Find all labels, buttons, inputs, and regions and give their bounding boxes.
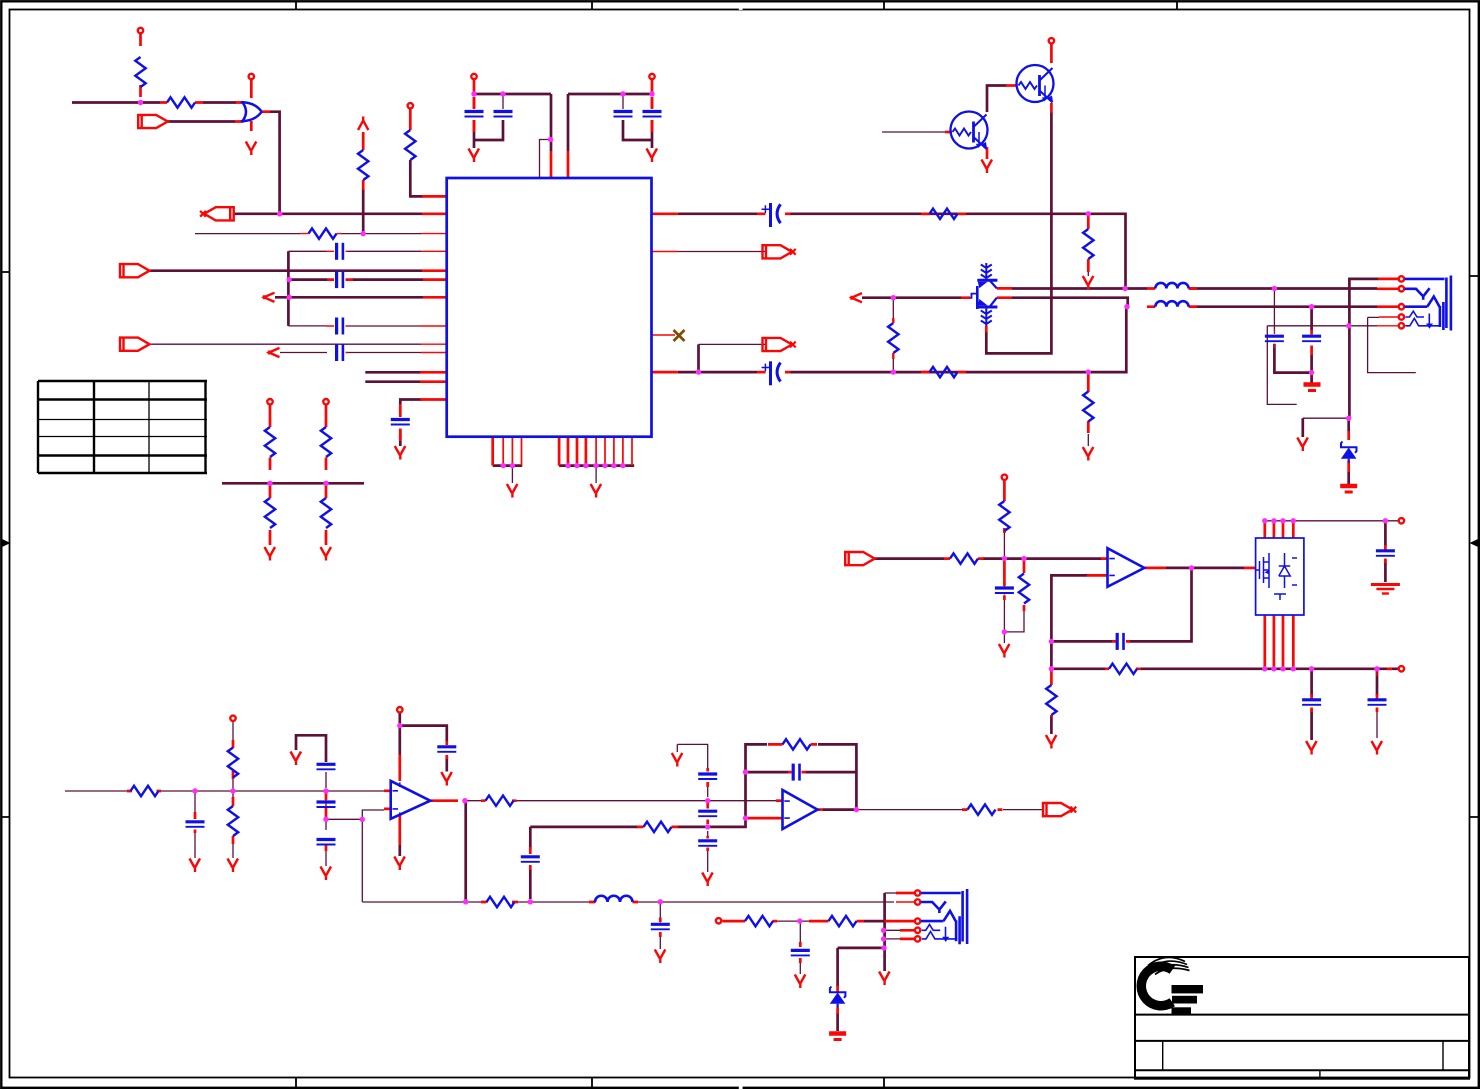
resistor R8: [321, 498, 331, 528]
wire R9 column corner: [410, 160, 423, 196]
node gnd branch junction: [1346, 416, 1351, 421]
wire decapA rail: [474, 94, 551, 151]
pin stub jack2 p1: [896, 892, 914, 895]
pin stub jack1 p3: [1377, 305, 1398, 308]
ground gate: [246, 142, 256, 156]
pin stub R x1051 gnd: [1050, 666, 1053, 717]
capacitor C20: [437, 747, 456, 752]
resistor R30: [228, 748, 238, 778]
pin stub cap x530: [529, 847, 532, 870]
resistor R39: [644, 822, 672, 832]
pin stub cap x195: [194, 812, 197, 833]
power pin decapB: [649, 74, 654, 79]
inductor L2: [1155, 301, 1188, 307]
resistor R24: [1109, 664, 1137, 674]
resistor R4: [358, 150, 368, 180]
pin stub R5 R6 cols: [270, 405, 326, 470]
wire gate output to junction column: [269, 112, 280, 214]
node decapB a junction: [620, 91, 625, 96]
pin stub IC left cap y399: [400, 400, 446, 442]
pin stub fb R y744: [768, 743, 817, 746]
node botbus2 e junction: [602, 463, 607, 468]
resistor R35: [783, 739, 811, 749]
wire net y297.3: [275, 296, 423, 299]
port P3 out: [120, 338, 150, 351]
wire opamp2 output segment: [823, 808, 857, 811]
title block: [1135, 957, 1469, 1079]
node botbus2 f junction: [611, 463, 616, 468]
wire IC left pin y381.7: [365, 380, 420, 383]
wire R x1088 gnd leg: [1087, 214, 1089, 446]
pin stub R x1088.3 y372: [1087, 374, 1090, 433]
node L2 in junction: [1124, 304, 1129, 309]
pin stub cap x1004 plates: [1003, 586, 1005, 596]
capacitor C17: [317, 764, 336, 769]
node hp in a junction: [1002, 556, 1007, 561]
pin stub L3 leads: [589, 901, 638, 904]
node y214 R13 junction: [1086, 211, 1091, 216]
node chain low junction: [705, 824, 710, 829]
pin stub R2 leads: [160, 101, 203, 104]
pin stub IC bottom pins g1: [491, 437, 494, 466]
node y902 a junction: [463, 899, 468, 904]
left border centre arrow: [2, 539, 11, 547]
resistor R5: [265, 427, 275, 457]
power pin y668.8 rail: [1399, 666, 1404, 671]
inductor L1: [1155, 283, 1188, 289]
ground caps y700 b: [1372, 741, 1383, 755]
pin stub gate inputs: [235, 103, 244, 122]
pin stub jack1 p2: [1377, 287, 1398, 290]
pin stub gate output: [262, 110, 271, 113]
capacitor C15: [995, 588, 1014, 593]
capacitor C1: [337, 243, 343, 260]
wire jack1 pin5 line: [1267, 326, 1377, 405]
capacitor C11: [1302, 336, 1321, 341]
node U4 rail a junction: [1262, 518, 1267, 523]
pin stub decap caps: [474, 97, 652, 132]
pin stub jack1 p4 p5 thin: [1377, 317, 1398, 326]
wire headphone amp input: [874, 557, 1101, 560]
wire cap chain x707.7: [677, 744, 707, 872]
pin stub caps y700: [1312, 694, 1377, 712]
ground jack1 branch: [1297, 438, 1308, 452]
pin stub thin y344.2: [421, 343, 446, 345]
wire jack2 pin1 down-leg: [883, 893, 886, 946]
pin stub hp input R: [944, 557, 984, 560]
ground opamp1 supply cap: [441, 772, 452, 786]
pin stub Q1 base: [945, 131, 952, 134]
power pin R x233: [230, 716, 235, 721]
resistor R12: [888, 323, 898, 353]
wire IC left pin y372.3: [365, 371, 420, 374]
ground cap x800: [795, 975, 806, 989]
pin stub R x1004 col: [1003, 481, 1006, 601]
ground IC bottom g1: [507, 484, 518, 498]
pin stub R39 leads: [637, 826, 678, 829]
wire IC top jog pin: [540, 140, 552, 179]
resistor R7: [265, 498, 275, 528]
node botbus1 b junction: [510, 463, 515, 468]
ground caps y700 a: [1306, 741, 1317, 755]
pin stub fb cap y772: [788, 771, 806, 774]
resistor R37: [745, 916, 773, 926]
wire opamp1 supply: [400, 713, 447, 772]
node botbus2 b junction: [574, 463, 579, 468]
revision table: [38, 381, 207, 473]
wire vertical bus x289: [287, 251, 290, 326]
pin stub cap x800 col: [799, 942, 802, 963]
right border zone ticks: [1470, 276, 1478, 817]
capacitor C12: [1376, 551, 1395, 556]
power pin jack1 p5: [1399, 323, 1404, 328]
pin stub cap C2 leads: [328, 278, 353, 281]
pin stub IC pins y372 y381: [420, 372, 446, 381]
wire interstage y800.7: [466, 800, 776, 802]
wire L2 to jack1 pin3: [1189, 305, 1378, 308]
resistor R31: [228, 806, 238, 836]
node out bus a junction: [1262, 666, 1267, 671]
wire U4 top rail to power pin: [1265, 520, 1399, 522]
wire opamp3 R-gnd leg: [1050, 715, 1053, 734]
node top jog junction: [548, 137, 553, 142]
node opamp2 out junction: [854, 807, 859, 812]
wire opamp2 out to port: [856, 809, 1043, 811]
power pin jack2 p4: [915, 928, 920, 933]
wire opamp3 output to U4: [1166, 567, 1245, 570]
ground bar zener D1: [1340, 486, 1357, 492]
pin stub R y668.8 to jack rail: [1387, 667, 1392, 670]
node muteB junction: [696, 369, 701, 374]
pin stub opamp3 output: [1144, 567, 1166, 570]
wire net SCLK: port P2 to IC pin: [234, 212, 422, 215]
capacitor C5: [465, 112, 484, 117]
pin stub lineout R2 and pin3: [809, 920, 914, 923]
power pin jack2 p5: [915, 936, 920, 941]
node botbus2 d junction: [593, 463, 598, 468]
wire opamp1 vee: [398, 845, 401, 856]
pin stub jack2 p2: [896, 901, 914, 903]
wire L1 to jack1 pin2: [1189, 287, 1378, 290]
pin stub jack2 p4 p5: [900, 930, 914, 939]
wire net HP-R drive y297.7: [862, 298, 1128, 307]
node botbus1 a junction: [501, 463, 506, 468]
wire port P1 to gate input B: [167, 120, 235, 123]
pin stub cap x1312: [1310, 330, 1313, 355]
capacitor C2: [337, 271, 343, 288]
pin stub cap x1377 col: [1376, 669, 1378, 676]
wire stage2 cap leg x530: [529, 827, 532, 899]
capacitor C14: [1368, 700, 1387, 705]
logic gate U1: [241, 102, 262, 121]
left border zone ticks: [2, 272, 10, 817]
pin stub FET drains: [961, 288, 1012, 297]
resistor R2: [167, 97, 195, 107]
node out bus e junction: [1309, 666, 1314, 671]
wire net AOUTB y372.1: [678, 308, 1127, 373]
ground IC cap y446: [395, 446, 406, 460]
wire R divider x1024 leg: [1004, 559, 1024, 632]
wire fb cap right segment: [806, 771, 856, 774]
wire line-out R to jack2 pin3: [864, 920, 885, 923]
capacitor C22: [698, 811, 717, 816]
wire cap leg x660: [659, 902, 661, 949]
port P8 line out (x-tip): [1043, 803, 1073, 816]
wire net y326 cap line: [288, 325, 420, 327]
wire IC bottom gnd stems: [512, 466, 596, 483]
ground bar zener D2: [829, 1034, 846, 1040]
node decapA a junction: [471, 91, 476, 96]
ground flying cap bottom: [321, 867, 332, 881]
pin stub R12 x893 leads: [892, 318, 894, 359]
wire net y251.3 cap line: [288, 250, 421, 252]
diode D2 zener: [830, 987, 846, 998]
node y902 b junction: [528, 899, 533, 904]
pin stub IC pin y270.7: [422, 269, 446, 272]
wire net P3 y344.2: [150, 343, 422, 345]
transistor Q2: [1017, 65, 1054, 102]
resistor R14: [1083, 392, 1093, 422]
capacitor C6: [494, 112, 513, 117]
node y372 R14 junction: [1086, 369, 1091, 374]
power pin R x1004: [1002, 475, 1007, 480]
pin stub Q2 emitter: [1050, 103, 1053, 113]
node decapB b junction: [649, 91, 654, 96]
pin stub opamp1 output: [430, 799, 458, 802]
node stageA a junction: [192, 788, 197, 793]
resistor R20: [999, 501, 1009, 531]
node gate out junction: [277, 211, 282, 216]
resistor R33: [486, 796, 514, 806]
wire net AOUTA y213.8: [678, 214, 1126, 289]
wire R column x893: [892, 298, 894, 322]
pin stub R x1088 gnd: [1087, 216, 1090, 272]
pin stub cap CP1 leads: [757, 212, 791, 215]
node botbus2 a junction: [565, 463, 570, 468]
capacitor C23: [698, 841, 717, 846]
wire net y352.5 cap line: [280, 352, 421, 354]
inductor L3: [595, 896, 633, 902]
node y902 c junction: [658, 899, 663, 904]
pin stub jack1 p1: [1378, 278, 1398, 281]
wire net y279.6 right: [352, 278, 423, 281]
wire Q1 base lead: [882, 131, 945, 133]
power pin Q2: [1049, 38, 1054, 43]
wire stage-A long bottom y902: [362, 901, 894, 903]
pin stub thin y233.6: [300, 233, 446, 235]
pin stub opamp2 output: [818, 808, 824, 811]
wire flying cap column x326: [325, 772, 327, 866]
resistor R21: [1019, 574, 1029, 604]
arrow port y297.3: [264, 293, 275, 302]
ground IC bottom g2: [591, 484, 602, 498]
pin stub cap x1274: [1273, 330, 1275, 348]
node U4 rail e junction: [1383, 518, 1388, 523]
pin stub R x233 col: [232, 740, 235, 844]
wire R2 to gate input A: [203, 101, 236, 104]
wire decap cap leads: [503, 94, 623, 109]
op-amp U5A: [391, 781, 431, 819]
port P7 hp input: [845, 552, 875, 565]
port P2 in (left, x-tip): [204, 207, 234, 220]
wire Q1 collector to Q2 base: [987, 86, 1006, 113]
pin stub stage2 R y800: [481, 799, 517, 802]
capacitor C24: [521, 857, 540, 862]
ground R6 col: [321, 547, 332, 561]
wire net HP-L drive y288.5: [1012, 287, 1147, 290]
port P6 mute-B (x-tip): [763, 338, 793, 351]
wire opamp1 output column: [464, 801, 467, 902]
pin stub FET source: [985, 326, 988, 333]
pin stub R4 col: [362, 132, 365, 190]
pin stub thin y251.3: [327, 250, 447, 252]
wire R to cap x1385 top: [1376, 669, 1378, 738]
node x363 y233 junction: [361, 231, 366, 236]
capacitor C18: [317, 802, 336, 807]
ground earth U4 cap: [1371, 585, 1400, 594]
border notch marks: [739, 8, 743, 10]
node out bus d junction: [1291, 666, 1296, 671]
capacitor C13: [1302, 700, 1321, 705]
node hp in b junction: [1021, 556, 1026, 561]
wire R12 bottom to junction: [892, 359, 894, 372]
ground cap chain bottom: [702, 873, 713, 887]
top border zone ticks: [296, 2, 1177, 10]
wire cap leg x195: [194, 791, 196, 858]
power pin R1: [138, 28, 143, 33]
power pin R9: [408, 103, 413, 108]
pin stub IC pin y297.3: [423, 296, 446, 299]
resistor R11: [930, 367, 958, 377]
pin stub IC right AOUTA: [652, 212, 678, 215]
ground decapB: [647, 149, 658, 163]
power pin R5: [267, 399, 272, 404]
node lineout tap junction: [797, 918, 802, 923]
wire decapB rail: [568, 94, 652, 151]
node out bus c junction: [1280, 666, 1285, 671]
node stageA c junction: [323, 788, 328, 793]
node R5 tap junction: [267, 481, 272, 486]
node out bus f junction: [1374, 666, 1379, 671]
pin stub opamp3 inputs: [1087, 559, 1108, 576]
resistor R9: [405, 130, 415, 160]
pin stub IC pin y279.6: [423, 278, 446, 281]
wire filter caps bottom y372.6: [1274, 307, 1311, 383]
pin stub stage-A input R: [127, 790, 161, 793]
node C11 tap junction: [1309, 304, 1314, 309]
capacitor C9: [391, 420, 410, 425]
node opamp1 out junction: [462, 798, 467, 803]
wire decapB bottom: [623, 120, 652, 148]
resistor R3: [309, 228, 337, 238]
ground R x233: [228, 859, 239, 873]
node R12 top junction: [891, 295, 896, 300]
node L1 in junction: [1122, 286, 1127, 291]
wire gnd stub y418: [1303, 417, 1349, 419]
pin stub R y902 leads: [481, 901, 518, 904]
power pin jack1 p4: [1399, 314, 1404, 319]
pin stub IC right AOUTB: [652, 371, 678, 374]
pin stub cap chain x707: [706, 768, 709, 851]
node out bus b junction: [1271, 666, 1276, 671]
ground opamp1 vee: [394, 857, 405, 871]
node decapA b junction: [500, 91, 505, 96]
node fb res junction: [1049, 666, 1054, 671]
pin stub L2 leads: [1147, 305, 1197, 308]
port P4 out: [120, 264, 150, 277]
pin stub lineout R1: [723, 920, 778, 923]
capacitor C16: [186, 822, 205, 827]
wire IC bottom bus 1: [493, 464, 523, 467]
pin stub R x1024: [1023, 560, 1026, 611]
wire cap legs y668.8 bus: [1312, 669, 1377, 740]
ground R5 col: [265, 547, 276, 561]
capacitor C10: [1265, 336, 1284, 341]
capacitor C7: [614, 112, 633, 117]
pin stub cap fb y641: [1112, 640, 1130, 643]
ground flying cap top: [291, 752, 302, 766]
ground jack2 column: [879, 972, 890, 986]
power pin jack2 p3: [915, 918, 920, 923]
resistor R38: [829, 916, 857, 926]
right border centre arrow: [1470, 539, 1479, 547]
pin stub Q2 base: [1006, 84, 1017, 87]
node hp gnd junction: [1002, 629, 1007, 634]
node jack2 p4 junction: [881, 928, 886, 933]
transistor U3 fet pair: [970, 294, 977, 298]
ground cap chain top: [672, 753, 683, 767]
power pin opamp1: [397, 707, 402, 712]
node minus jog junction: [360, 817, 365, 822]
capacitor CP1 polarized: [769, 203, 772, 227]
pin stub zener D2: [836, 986, 839, 1015]
node fb2 min junction: [743, 815, 748, 820]
node caps gnd junction: [1309, 370, 1314, 375]
wire mute-B thin y344.4: [699, 343, 766, 345]
power pin gate: [249, 74, 254, 79]
node C10 tap junction: [1272, 286, 1277, 291]
ground Q1: [982, 160, 993, 174]
capacitor C8: [643, 112, 662, 117]
IC U2 codec: [447, 178, 652, 437]
pin stub U4 top pins: [1265, 521, 1294, 538]
pin stub Q2 collector: [1050, 44, 1053, 63]
wire jack2 pin4/5 stubs: [885, 930, 900, 939]
resistor R10: [930, 209, 958, 219]
arrow port up x363: [358, 117, 368, 131]
ground R x1051: [1046, 735, 1057, 749]
power pin jack1 p2: [1399, 286, 1404, 291]
node U4 rail b junction: [1271, 518, 1276, 523]
ground decapA: [469, 149, 480, 163]
capacitor C21: [698, 774, 717, 779]
node opamp3 out junction: [1189, 565, 1194, 570]
wire stage-A input line y791: [65, 790, 384, 792]
ground R x1088 y372: [1083, 447, 1094, 461]
pin stub thin y326: [327, 325, 447, 327]
wire net MCLK-pullup top-left: [72, 101, 160, 104]
pin stub R1 top: [139, 34, 142, 98]
node y297 junction: [287, 295, 292, 300]
transistor U4 mosfet pair: [1256, 538, 1304, 615]
Cirrus Logic logo: [1136, 957, 1203, 1014]
arrow port y297.7 mid: [852, 293, 863, 302]
pin stub IC pin y196: [410, 109, 446, 196]
wire R divider x1004 column: [1003, 531, 1005, 643]
wire line-out R chain: [723, 921, 810, 974]
pin stub cap CP2 leads: [757, 371, 791, 374]
capacitor C4: [337, 344, 343, 361]
